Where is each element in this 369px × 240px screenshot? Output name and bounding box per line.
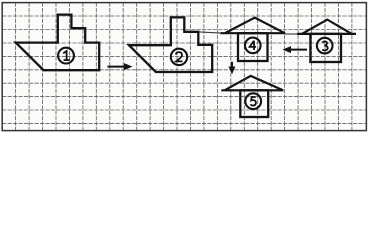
house shape 5 (body) — [240, 90, 268, 117]
circled label 1 — [58, 48, 74, 64]
arrow house3 to house4 (points left) — [283, 46, 308, 53]
house shape 5 (roof) — [221, 76, 283, 90]
outer border frame — [2, 3, 366, 131]
house shape 3 (roof) — [297, 20, 356, 34]
paper background — [0, 0, 369, 134]
house shape 4 (roof) — [221, 18, 286, 34]
faint scan line from boat2 step to house4 eave — [199, 32, 221, 33]
house shape 3 (body) — [310, 34, 341, 62]
boat shape 2 — [129, 17, 212, 72]
arrow boat1 to boat2 — [108, 63, 133, 70]
boat shape 1 — [16, 15, 99, 71]
arrow house4 down to house5 — [229, 62, 236, 74]
house shape 4 (body) — [238, 33, 268, 61]
circled label 2 — [171, 49, 187, 65]
circled label 3 — [317, 38, 333, 54]
faint scan line between eaves — [285, 33, 298, 35]
circled label 5 — [245, 93, 261, 109]
circled label 4 — [245, 38, 261, 54]
